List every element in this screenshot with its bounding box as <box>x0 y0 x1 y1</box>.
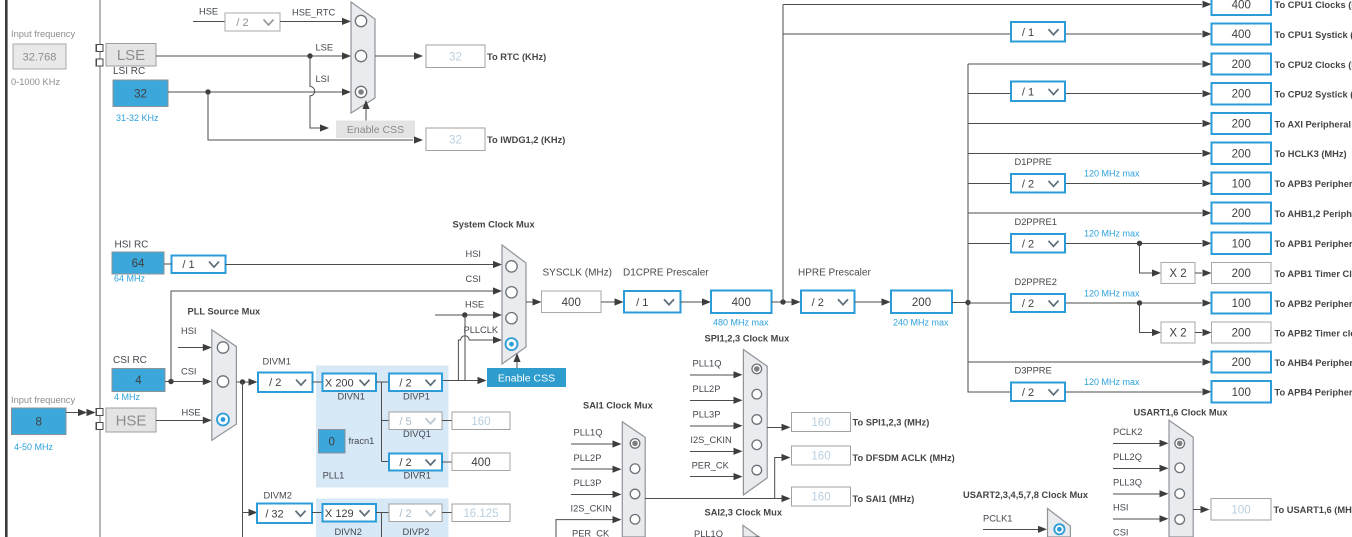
wire I2S_CKIN stub to SAI1 mux <box>556 520 613 537</box>
RTC mux radio LSE <box>355 50 366 61</box>
DIVM2 divider /32 <box>257 504 312 524</box>
SPI1,2,3 Clock Mux shape <box>743 350 767 495</box>
svg-text:To CPU2 Systick (MHz): To CPU2 Systick (MHz) <box>1275 90 1352 100</box>
USART2 mux radio PCLK1 selected <box>1054 524 1064 534</box>
wire PCLK2 stub to USART1,6 mux <box>1113 442 1160 444</box>
wire DFSDM branch <box>775 458 782 499</box>
wire SYSCLK to D1CPRE <box>601 301 615 303</box>
wire PLL2P stub to SPI mux <box>690 399 734 401</box>
svg-text:To USART1,6 (MHz): To USART1,6 (MHz) <box>1274 505 1352 515</box>
svg-text:/ 2: / 2 <box>812 297 824 309</box>
svg-text:LSE: LSE <box>316 43 334 53</box>
svg-text:HSE: HSE <box>465 300 484 310</box>
junction 400 branch <box>780 299 785 304</box>
svg-text:/ 2: / 2 <box>399 508 411 520</box>
PLL mux output wire <box>236 381 249 383</box>
wire HSE down to Enable CSS feed <box>464 315 466 381</box>
wire DIVQ1 to output <box>442 420 452 422</box>
svg-text:DIVM1: DIVM1 <box>263 357 291 367</box>
row To APB4 Peripheral Clocks (MHz): output box 100 <box>1212 381 1272 402</box>
svg-text:32: 32 <box>449 134 462 146</box>
SPI mux radio I2S_CKIN <box>752 440 762 450</box>
svg-text:PLL3Q: PLL3Q <box>1113 478 1142 488</box>
svg-text:400: 400 <box>732 297 751 309</box>
row To APB3 Peripheral Clocks (MHz): wire <box>968 182 1011 184</box>
svg-text:/ 1: / 1 <box>1022 27 1034 39</box>
SAI2,3 Clock Mux shape (clipped) <box>743 525 759 537</box>
svg-text:400: 400 <box>562 297 581 309</box>
svg-text:fracn1: fracn1 <box>349 436 375 446</box>
DIVM1 divider /2 <box>258 372 313 392</box>
svg-text:To CPU1 Clocks (MHz): To CPU1 Clocks (MHz) <box>1275 0 1352 10</box>
svg-text:LSI: LSI <box>316 74 330 84</box>
DIVN2 multiplier X 129 <box>323 504 376 522</box>
SPI mux radio PLL1Q selected <box>752 364 762 374</box>
To RTC output box 32 (disabled) <box>426 45 485 68</box>
row To CPU2 Systick (MHz): output box 200 <box>1212 83 1272 104</box>
svg-text:SAI1 Clock Mux: SAI1 Clock Mux <box>583 401 654 411</box>
wire down to DIVM2 and PLL3 <box>242 382 244 537</box>
To USART1,6 output box 100 (disabled) <box>1211 499 1271 521</box>
svg-text:X 2: X 2 <box>1169 328 1186 340</box>
SAI1 Clock Mux shape <box>622 422 645 537</box>
System mux radio HSI <box>506 261 517 272</box>
wire Enable CSS up into System mux <box>516 357 518 368</box>
PLL Source Mux shape <box>212 330 237 441</box>
svg-text:To APB1 Timer Clocks (MHz): To APB1 Timer Clocks (MHz) <box>1275 269 1352 279</box>
wire PCLK1 stub to USART2 mux <box>983 528 1039 530</box>
row To APB2 Timer clocks (MHz): X 2 multiplier box <box>1161 322 1195 343</box>
svg-text:/ 1: / 1 <box>182 259 194 271</box>
RTC HSE divider /2 (disabled) <box>225 13 280 31</box>
svg-text:160: 160 <box>811 417 830 429</box>
USART1,6 mux radio PLL2Q <box>1175 463 1185 473</box>
DIVP2 divider /2 (disabled) <box>389 504 442 522</box>
junction LSI <box>205 89 210 94</box>
svg-text:100: 100 <box>1232 387 1251 399</box>
LSE pin 2 <box>96 59 103 66</box>
HSI RC source box 64 <box>112 252 164 274</box>
CSI RC source box 4 <box>112 369 165 392</box>
wire PLLCLK up and into System Clock Mux (hop over HSE line) <box>458 336 493 381</box>
Enable CSS box (RTC, gray) <box>336 121 415 139</box>
System Clock Mux shape <box>502 245 526 364</box>
svg-text:CSI: CSI <box>181 367 197 377</box>
svg-text:To AXI Peripheral Clocks (MHz): To AXI Peripheral Clocks (MHz) <box>1275 119 1352 129</box>
SAI1 mux radio PLL3P <box>630 489 640 499</box>
svg-text:160: 160 <box>471 416 490 428</box>
DIVR1 divider /2 <box>389 454 442 471</box>
svg-text:To APB1 Peripheral Clocks (MHz: To APB1 Peripheral Clocks (MHz) <box>1275 239 1352 249</box>
SPI mux radio PER_CK <box>752 465 762 475</box>
svg-text:200: 200 <box>1232 357 1251 369</box>
svg-text:USART2,3,4,5,7,8 Clock Mux: USART2,3,4,5,7,8 Clock Mux <box>963 490 1089 500</box>
SPI mux output wire <box>767 426 782 428</box>
PLL2 panel <box>316 498 449 537</box>
svg-text:To SAI1 (MHz): To SAI1 (MHz) <box>853 494 915 504</box>
svg-text:/ 1: / 1 <box>636 297 648 309</box>
svg-text:D2PPRE1: D2PPRE1 <box>1015 217 1057 227</box>
svg-text:SAI2,3 Clock Mux: SAI2,3 Clock Mux <box>705 508 783 518</box>
svg-text:To DFSDM ACLK (MHz): To DFSDM ACLK (MHz) <box>853 453 955 463</box>
MCU boundary line <box>99 0 101 537</box>
svg-text:PLLCLK: PLLCLK <box>464 325 499 335</box>
svg-text:PLL3P: PLL3P <box>574 478 602 488</box>
wire HSE_RTC to RTC mux <box>280 20 342 22</box>
svg-text:200: 200 <box>1232 89 1251 101</box>
svg-text:200: 200 <box>1232 59 1251 71</box>
USART1,6 Clock Mux shape <box>1169 420 1193 537</box>
row To APB1 Timer Clocks (MHz): X2 branch wire <box>1140 244 1153 274</box>
wire HSI to System Clock Mux <box>226 264 494 266</box>
svg-text:To APB3 Peripheral Clocks (MHz: To APB3 Peripheral Clocks (MHz) <box>1275 179 1352 189</box>
wire 400 to HPRE <box>772 301 793 303</box>
row To APB1 Peripheral Clocks (MHz): divider D2PPRE1 / 2 <box>1011 234 1065 252</box>
row To APB4 Peripheral Clocks (MHz): divider D3PPRE / 2 <box>1011 383 1065 401</box>
svg-text:To IWDG1,2 (KHz): To IWDG1,2 (KHz) <box>487 135 565 145</box>
wire LSE to RTC mux <box>156 55 342 57</box>
svg-text:4-50 MHz: 4-50 MHz <box>14 442 54 452</box>
svg-text:400: 400 <box>1232 0 1251 11</box>
row To AHB4 Peripheral Clocks (MHz): output box 200 <box>1212 351 1272 372</box>
wire I2S_CKIN stub to SPI mux <box>690 450 734 452</box>
svg-text:To HCLK3 (MHz): To HCLK3 (MHz) <box>1275 149 1347 159</box>
svg-text:LSE: LSE <box>117 47 145 64</box>
svg-text:To RTC (KHz): To RTC (KHz) <box>487 52 546 62</box>
svg-text:CSI RC: CSI RC <box>113 355 147 366</box>
System mux radio HSE <box>506 313 517 324</box>
svg-text:/ 2: / 2 <box>1022 238 1034 250</box>
row To APB2 Timer clocks (MHz): X2 branch wire <box>1140 303 1153 333</box>
svg-text:PLL Source Mux: PLL Source Mux <box>188 307 261 317</box>
svg-text:/ 2: / 2 <box>1022 387 1034 399</box>
svg-text:64 MHz: 64 MHz <box>114 274 146 284</box>
svg-text:LSI RC: LSI RC <box>113 66 145 77</box>
fracn1 box 0 <box>319 430 346 454</box>
wire to SAI1 output box <box>775 498 782 500</box>
wire DIVN1 to DIVP1 with branch <box>376 381 389 383</box>
row To APB1 Timer Clocks (MHz): output box 200 <box>1212 262 1272 283</box>
PLL1Q output box 160 (disabled) <box>452 412 510 430</box>
svg-text:0-1000 KHz: 0-1000 KHz <box>11 77 60 87</box>
row To HCLK3 (MHz): wire <box>968 152 1202 154</box>
svg-text:USART1,6 Clock Mux: USART1,6 Clock Mux <box>1134 408 1229 418</box>
HSE input frequency box 8 <box>12 408 67 435</box>
RTC mux radio LSI selected <box>355 86 366 97</box>
svg-text:HSE_RTC: HSE_RTC <box>292 8 336 18</box>
svg-text:PLL1Q: PLL1Q <box>693 359 722 369</box>
svg-text:/ 2: / 2 <box>269 377 281 389</box>
svg-text:HSE: HSE <box>182 408 201 418</box>
row To HCLK3 (MHz): output box 200 <box>1212 143 1272 164</box>
junction PLL mux output <box>240 379 245 384</box>
svg-text:HSI: HSI <box>1113 503 1129 513</box>
junction bus <box>965 300 970 305</box>
svg-text:HSI: HSI <box>181 326 197 336</box>
HSE pin 2 <box>96 423 103 430</box>
wire D1CPRE to 400 <box>681 301 703 303</box>
junction CSI <box>168 379 173 384</box>
To IWDG output box 32 (disabled) <box>426 128 485 151</box>
wire LSE branch down to Enable CSS (with hop over LSI) <box>310 56 320 128</box>
svg-text:/ 1: / 1 <box>1022 86 1034 98</box>
svg-text:/ 2: / 2 <box>399 377 411 389</box>
USART2,3,4,5,7,8 Clock Mux shape (clipped) <box>1048 509 1071 537</box>
wire bus vertical <box>967 64 969 393</box>
SAI1 mux radio I2S_CKIN <box>630 515 640 525</box>
svg-text:/ 2: / 2 <box>236 17 248 29</box>
row To CPU1 Systick (MHz): divider / 1 <box>1011 22 1065 42</box>
svg-text:To SPI1,2,3 (MHz): To SPI1,2,3 (MHz) <box>853 418 930 428</box>
SYSCLK box 400 <box>542 291 602 313</box>
row To APB2 Peripheral Clocks (MHz): divider D2PPRE2 / 2 <box>1011 294 1065 312</box>
LSE oscillator box <box>106 44 156 67</box>
LSI RC source box 32 <box>113 80 168 107</box>
wire PLL1Q stub to SAI1 mux <box>571 443 613 445</box>
To SAI1 output box 160 (disabled) <box>792 487 851 506</box>
svg-text:160: 160 <box>811 492 830 504</box>
svg-text:I2S_CKIN: I2S_CKIN <box>690 435 731 445</box>
SAI1 mux radio PLL1Q selected <box>630 439 640 449</box>
svg-text:PLL1: PLL1 <box>323 471 345 481</box>
wire PER_CK stub to SPI mux <box>690 476 734 478</box>
wire DIVP1 to Enable CSS <box>443 380 478 382</box>
svg-text:32.768: 32.768 <box>23 52 57 64</box>
wire HSI RC to divider <box>164 263 172 265</box>
DIVN1 multiplier X 200 <box>323 374 376 392</box>
svg-text:/ 32: / 32 <box>265 508 283 520</box>
row To CPU1 Systick (MHz): output box 400 <box>1212 23 1272 44</box>
svg-text:D3PPRE: D3PPRE <box>1015 366 1052 376</box>
svg-text:200: 200 <box>1232 268 1251 280</box>
svg-text:To APB4 Peripheral Clocks (MHz: To APB4 Peripheral Clocks (MHz) <box>1275 388 1352 398</box>
svg-text:To AHB1,2 Peripheral Clocks (M: To AHB1,2 Peripheral Clocks (MHz) <box>1275 209 1352 219</box>
svg-text:To CPU2 Clocks (MHz): To CPU2 Clocks (MHz) <box>1275 60 1352 70</box>
svg-text:200: 200 <box>1232 119 1251 131</box>
HSE pin 1 <box>96 409 103 416</box>
D1CPRE output box 400 <box>711 291 772 314</box>
svg-text:PLL1Q: PLL1Q <box>694 529 723 537</box>
System mux radio CSI <box>506 287 517 298</box>
svg-text:X 2: X 2 <box>1169 268 1186 280</box>
row To CPU2 Clocks (MHz): output box 200 <box>1212 53 1272 74</box>
wire PLL3P stub to SPI mux <box>690 425 734 427</box>
row To AHB1,2 Peripheral Clocks (MHz): output box 200 <box>1212 202 1272 223</box>
PLL mux radio CSI <box>217 376 228 387</box>
svg-text:PLL2P: PLL2P <box>693 384 721 394</box>
wire LSI branch to IWDG <box>208 92 413 140</box>
wire PLL3P stub to SAI1 mux <box>571 493 613 495</box>
wire 8 to HSE pins (double arrow) <box>66 412 80 414</box>
junction LSE <box>307 53 312 58</box>
row To APB2 Peripheral Clocks (MHz): wire <box>968 302 1011 304</box>
RTC mux output wire <box>375 55 414 57</box>
svg-text:200: 200 <box>912 297 931 309</box>
PLL mux radio HSI <box>217 342 228 353</box>
svg-text:64: 64 <box>132 258 145 270</box>
svg-text:PER_CK: PER_CK <box>572 529 610 537</box>
USART1,6 mux output wire <box>1193 509 1201 511</box>
wire CSI up to System Clock Mux <box>171 291 493 382</box>
svg-text:32: 32 <box>134 88 147 100</box>
LSE input frequency box 32.768 <box>13 44 66 69</box>
junction D2PPRE2 timer branch <box>1137 300 1142 305</box>
svg-text:HSI RC: HSI RC <box>115 240 149 251</box>
svg-text:31-32 KHz: 31-32 KHz <box>116 113 159 123</box>
row To AHB4 Peripheral Clocks (MHz): wire <box>968 361 1202 363</box>
svg-text:System Clock Mux: System Clock Mux <box>453 220 536 230</box>
RTC mux radio HSE_RTC <box>355 15 366 26</box>
svg-text:HSI: HSI <box>466 249 482 259</box>
svg-text:120 MHz max: 120 MHz max <box>1084 288 1140 298</box>
row To APB1 Peripheral Clocks (MHz): wire <box>968 242 1011 244</box>
svg-text:240 MHz max: 240 MHz max <box>893 318 949 328</box>
wire PLL3Q stub to USART1,6 mux <box>1113 493 1160 495</box>
row To APB3 Peripheral Clocks (MHz): divider D1PPRE / 2 <box>1011 174 1065 192</box>
HPRE divider /2 <box>801 291 855 314</box>
svg-text:/ 5: / 5 <box>399 416 411 428</box>
svg-text:8: 8 <box>36 416 42 428</box>
row To APB2 Peripheral Clocks (MHz): output box 100 <box>1212 292 1272 313</box>
wire DIVN2 to DIVP2 with branch <box>376 512 389 514</box>
wire PLL2P stub to SAI1 mux <box>571 468 613 470</box>
HSE oscillator box <box>106 408 156 432</box>
DIVQ1 divider /5 (disabled) <box>389 412 442 430</box>
svg-text:400: 400 <box>471 457 490 469</box>
svg-text:Enable CSS: Enable CSS <box>498 373 555 385</box>
HSI divider /1 <box>172 255 226 272</box>
To DFSDM output box 160 (disabled) <box>792 446 851 465</box>
junction D2PPRE1 timer branch <box>1137 241 1142 246</box>
svg-text:Input frequency: Input frequency <box>11 395 75 405</box>
wire PLL2Q stub to USART1,6 mux <box>1113 467 1160 469</box>
wire HSE to PLL Source Mux <box>156 419 203 421</box>
svg-text:100: 100 <box>1232 238 1251 250</box>
PLL2P output box 16.125 (disabled) <box>452 504 510 522</box>
svg-text:HSE: HSE <box>199 7 218 17</box>
wire 200 to bus <box>952 302 968 304</box>
row To AXI Peripheral Clocks (MHz): wire <box>968 123 1202 125</box>
svg-text:160: 160 <box>811 451 830 463</box>
svg-text:To APB2 Timer clocks (MHz): To APB2 Timer clocks (MHz) <box>1275 328 1352 338</box>
wire 400 branch vertical <box>782 5 784 303</box>
wire HPRE to 200 <box>855 301 883 303</box>
svg-text:I2S_CKIN: I2S_CKIN <box>571 503 612 513</box>
svg-text:/ 2: / 2 <box>1022 178 1034 190</box>
PLL1R output box 400 <box>452 453 510 471</box>
wire HSE to RTC divider <box>193 20 225 22</box>
svg-text:4: 4 <box>135 375 142 387</box>
svg-text:480 MHz max: 480 MHz max <box>713 318 769 328</box>
row To CPU2 Clocks (MHz): wire <box>968 63 1202 65</box>
svg-text:DIVN1: DIVN1 <box>338 392 365 402</box>
svg-text:100: 100 <box>1231 504 1250 516</box>
svg-text:D1CPRE Prescaler: D1CPRE Prescaler <box>623 268 709 279</box>
System mux radio PLLCLK selected <box>506 338 518 350</box>
USART1,6 mux radio HSI <box>1175 515 1185 525</box>
SAI1 mux radio PLL2P <box>630 464 640 474</box>
svg-text:D2PPRE2: D2PPRE2 <box>1015 277 1057 287</box>
svg-text:PLL1Q: PLL1Q <box>574 428 603 438</box>
svg-text:PER_CK: PER_CK <box>692 460 730 470</box>
svg-text:CSI: CSI <box>1113 528 1129 537</box>
svg-text:CSI: CSI <box>466 274 482 284</box>
svg-text:To CPU1 Systick (MHz): To CPU1 Systick (MHz) <box>1275 30 1352 40</box>
SPI mux radio PLL3P <box>752 415 762 425</box>
svg-text:PLL3P: PLL3P <box>693 410 721 420</box>
svg-text:X 200: X 200 <box>325 377 354 389</box>
svg-text:PCLK1: PCLK1 <box>983 514 1012 524</box>
row To CPU2 Systick (MHz): divider / 1 <box>1011 82 1065 102</box>
LSE pin 1 <box>96 45 103 52</box>
row To APB4 Peripheral Clocks (MHz): wire <box>968 391 1011 393</box>
row To CPU1 Clocks (MHz): output box 400 <box>1212 0 1272 15</box>
row To APB1 Timer Clocks (MHz): X 2 multiplier box <box>1161 262 1195 283</box>
wire DIVM2 to DIVN2 <box>312 512 323 514</box>
svg-text:200: 200 <box>1232 208 1251 220</box>
svg-text:DIVQ1: DIVQ1 <box>403 429 431 439</box>
svg-text:PLL2Q: PLL2Q <box>1113 452 1142 462</box>
svg-text:100: 100 <box>1232 178 1251 190</box>
svg-text:D1PPRE: D1PPRE <box>1015 157 1052 167</box>
left panel edge <box>5 0 8 537</box>
svg-text:To APB2 Peripheral Clocks (MHz: To APB2 Peripheral Clocks (MHz) <box>1275 299 1352 309</box>
svg-text:SYSCLK (MHz): SYSCLK (MHz) <box>543 268 612 279</box>
svg-text:DIVN2: DIVN2 <box>335 527 362 537</box>
svg-text:120 MHz max: 120 MHz max <box>1084 229 1140 239</box>
wire CSI to PLL Source Mux <box>165 381 203 383</box>
wire PLL1Q stub to SPI mux <box>690 374 734 376</box>
svg-text:HSE: HSE <box>116 412 147 429</box>
row To CPU1 Systick (MHz): wire <box>783 33 1011 35</box>
SPI mux radio PLL2P <box>752 389 762 399</box>
System mux output wire <box>526 301 533 303</box>
wire DIVM1 to DIVN1 <box>313 381 323 383</box>
D1CPRE divider /1 <box>624 291 681 313</box>
wire HSI stub to PLL mux <box>178 347 203 349</box>
row To CPU2 Systick (MHz): wire <box>968 93 1011 95</box>
svg-text:To AHB4 Peripheral Clocks (MHz: To AHB4 Peripheral Clocks (MHz) <box>1275 358 1352 368</box>
svg-text:DIVR1: DIVR1 <box>404 471 431 481</box>
PLL mux radio HSE selected <box>217 414 229 426</box>
svg-text:200: 200 <box>1232 148 1251 160</box>
svg-text:PLL2P: PLL2P <box>574 453 602 463</box>
svg-text:Enable CSS: Enable CSS <box>347 124 404 136</box>
To SPI1,2,3 output box 160 (disabled) <box>792 413 851 432</box>
svg-text:PCLK2: PCLK2 <box>1113 427 1142 437</box>
wire HSI stub to USART1,6 mux <box>1113 518 1160 520</box>
svg-text:0: 0 <box>329 436 335 448</box>
junction HSE stub <box>462 312 467 317</box>
DIVP1 divider /2 <box>389 374 442 392</box>
RTC clock mux <box>351 2 375 113</box>
wire DIVR1 to output <box>442 461 452 463</box>
HSE stub to System Clock Mux <box>435 314 493 316</box>
wire LSI to RTC mux <box>168 91 342 93</box>
SAI1 mux output wire <box>645 498 775 500</box>
svg-text:120 MHz max: 120 MHz max <box>1084 169 1140 179</box>
PLL1 panel <box>316 366 449 488</box>
row To APB2 Timer clocks (MHz): output box 200 <box>1212 322 1272 343</box>
svg-text:/ 2: / 2 <box>1022 298 1034 310</box>
svg-text:32: 32 <box>449 51 462 63</box>
row To AXI Peripheral Clocks (MHz): output box 200 <box>1212 113 1272 134</box>
svg-text:HPRE Prescaler: HPRE Prescaler <box>798 268 871 279</box>
svg-text:DIVP1: DIVP1 <box>403 392 430 402</box>
HPRE output box 200 <box>891 291 952 314</box>
svg-text:100: 100 <box>1232 298 1251 310</box>
svg-text:SPI1,2,3 Clock Mux: SPI1,2,3 Clock Mux <box>705 334 791 344</box>
